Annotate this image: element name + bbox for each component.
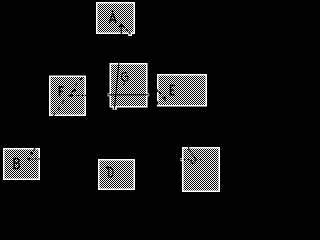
- dashed diagonal into B from A: [30, 148, 35, 155]
- node B label: [13, 158, 20, 170]
- node F label: [59, 86, 64, 96]
- dotted horizontal arrow into F from E: [68, 93, 86, 97]
- node D glyph (hook with left arrowhead): [108, 167, 114, 178]
- hook curve with up-left arrowhead in H: [190, 156, 195, 163]
- dashed diagonal into F from A: [70, 77, 82, 93]
- node E label: [170, 85, 175, 96]
- node H tile (bottom right): [182, 147, 220, 192]
- node A label Å: [108, 10, 117, 22]
- node B tile: [3, 148, 40, 180]
- dashed diagonal leaving A (to E direction): [123, 26, 132, 36]
- halo where dotted line pokes left of H: [180, 158, 182, 161]
- steep dashed line entering H top: [189, 147, 194, 156]
- node A tile: [96, 2, 135, 34]
- node G tile: [110, 63, 148, 107]
- horizontal line through G (E-F edge): [108, 94, 149, 96]
- node E tile: [157, 74, 207, 106]
- dashed diagonal through F lower-left (A-B edge): [53, 100, 64, 116]
- halo where steep line exits G bottom: [113, 107, 117, 109]
- steep line through G (A-D edge): [114, 62, 119, 109]
- dotted horizontal line into H: [180, 159, 190, 161]
- node D tile: [98, 159, 135, 190]
- node G label (spiral glyph): [121, 73, 128, 85]
- node F tile: [49, 76, 86, 117]
- halo where horizontal line pokes left of G: [107, 93, 109, 96]
- arrow into A (up arrowhead + shaft): [118, 23, 124, 35]
- halo where diagonal exits A bottom: [128, 34, 132, 36]
- dashed diagonal into E with arrowhead: [157, 89, 167, 104]
- halo where horizontal line pokes right of G: [148, 93, 150, 96]
- dotted horizontal arrow into B: [27, 157, 40, 161]
